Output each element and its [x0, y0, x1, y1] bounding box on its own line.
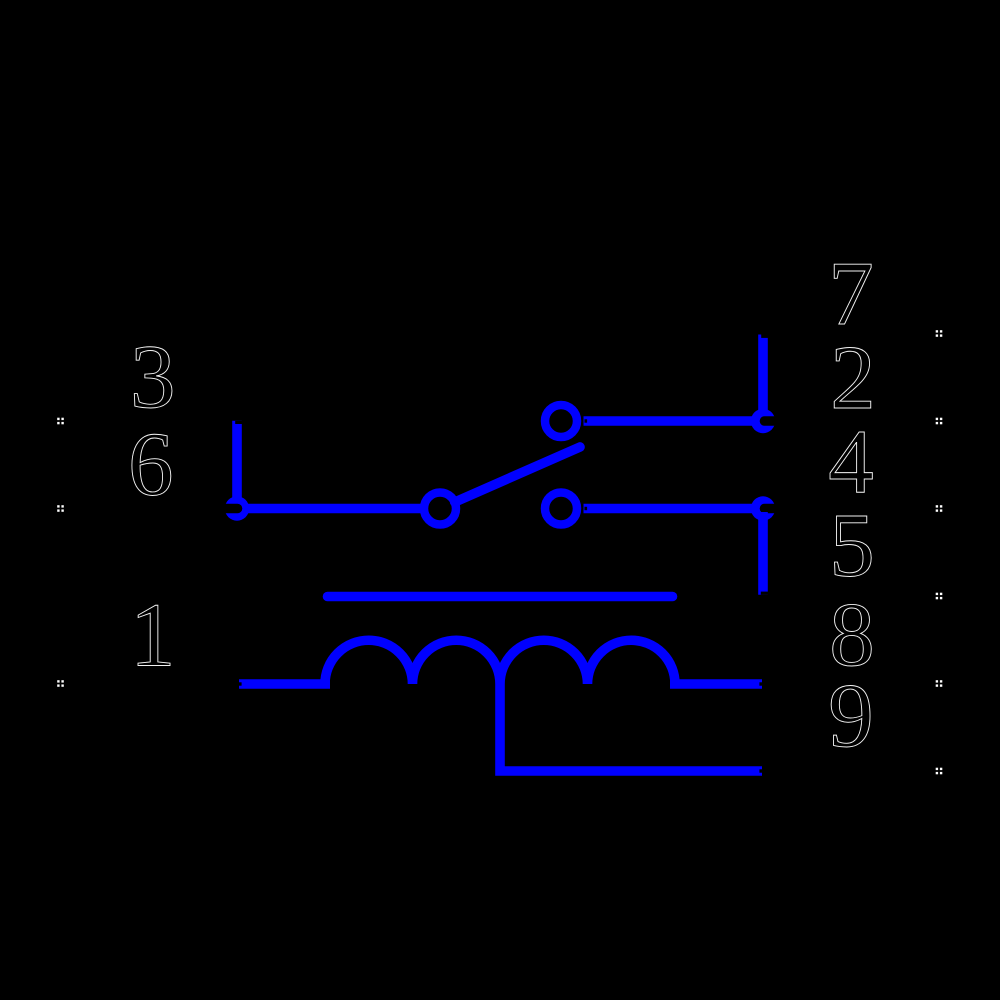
switch SW1 NC contact circle	[545, 405, 577, 437]
sheet connection marker right row7	[936, 330, 943, 337]
wire coil left lead (pin1/pin8 row)	[239, 679, 330, 689]
sheet connection marker left row6	[57, 505, 64, 512]
svg-text:6: 6	[128, 414, 174, 515]
switch SW1 lever	[455, 447, 580, 502]
wire coil center tap to pin9	[500, 684, 762, 771]
wire pin3 stub (vertical)	[232, 421, 242, 505]
svg-text:5: 5	[829, 495, 875, 596]
wire pin7 stub (vertical)	[758, 335, 768, 418]
armature bar	[328, 592, 673, 602]
switch SW1 NO contact circle	[545, 493, 577, 525]
wire pin5 stub (vertical)	[758, 512, 768, 595]
inductor L1 coil	[325, 640, 675, 684]
switch SW1 common contact circle	[424, 493, 456, 525]
sheet connection marker right row9	[936, 768, 943, 775]
node junction B	[751, 409, 790, 433]
svg-text:3: 3	[130, 326, 176, 427]
svg-text:9: 9	[828, 665, 874, 766]
sheet connection marker right row8	[936, 680, 943, 687]
sheet connection marker right row5	[936, 593, 943, 600]
wire NO to pin4	[584, 504, 764, 514]
sheet connection marker left row3	[57, 418, 64, 425]
sheet connection marker left row1	[57, 680, 64, 687]
sheet connection marker right row2	[936, 418, 943, 425]
svg-text:1: 1	[130, 585, 176, 686]
wire NC to pin2	[584, 416, 764, 426]
pin end notch marks	[235, 335, 768, 773]
node junction C	[751, 496, 790, 520]
wire common feed (pin6 row)	[237, 504, 424, 514]
node junction A	[212, 496, 249, 520]
wire coil right lead	[670, 679, 762, 689]
sheet connection marker right row4	[936, 505, 943, 512]
